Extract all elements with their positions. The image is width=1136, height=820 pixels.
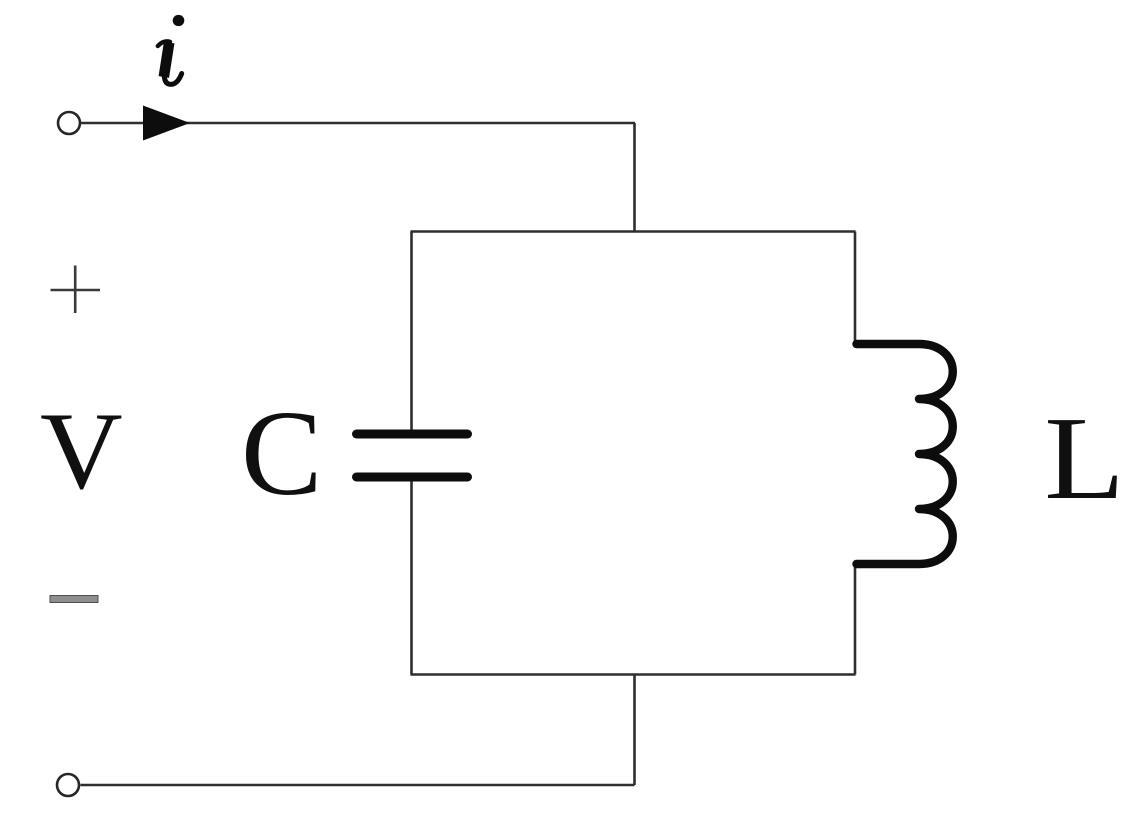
svg-text:V: V <box>40 391 123 512</box>
svg-text:L: L <box>1044 393 1125 525</box>
svg-text:C: C <box>241 386 322 521</box>
